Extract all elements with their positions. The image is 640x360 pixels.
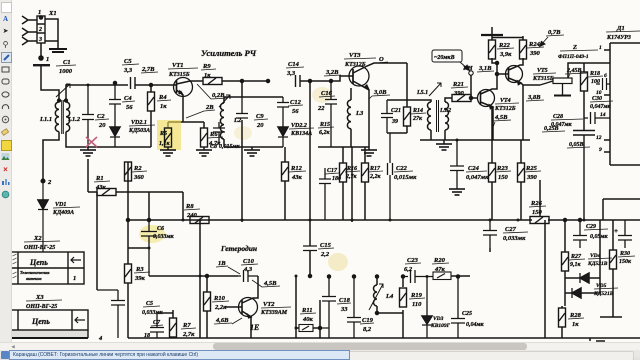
svg-text:R8: R8 (185, 203, 194, 210)
wire C14 to VT3 base (300, 76, 353, 81)
diode VD1 (38, 181, 80, 252)
node tank2 top (241, 80, 244, 83)
wire C1 to L1 (41, 66, 59, 102)
svg-text:0,015мк: 0,015мк (394, 174, 417, 181)
wire emitter rail (420, 139, 530, 141)
diode VD5 (565, 283, 618, 298)
label 0,2V (197, 84, 228, 99)
svg-text:8,2: 8,2 (363, 326, 372, 333)
svg-text:+: + (614, 227, 618, 235)
resistor R27 (562, 219, 586, 279)
wire X1 to ground (45, 19, 58, 48)
node 2 (41, 179, 52, 186)
tuning arrow tank2 (219, 95, 230, 107)
svg-text:~20мкВ: ~20мкВ (434, 55, 455, 61)
capacitor C1 (33, 59, 76, 75)
inductor L2 (220, 103, 242, 139)
wire right bottom (490, 199, 640, 338)
svg-text:VT2: VT2 (263, 301, 275, 308)
svg-text:150: 150 (532, 209, 543, 216)
resistor R4 (148, 85, 172, 147)
label O (377, 56, 388, 63)
svg-text:43к: 43к (291, 174, 303, 181)
wire down from C14 node (309, 81, 311, 276)
svg-text:VD5: VD5 (596, 283, 607, 289)
capacitor C28 (551, 114, 595, 220)
resistor R28 (559, 306, 585, 338)
resistor R9 (201, 63, 268, 85)
main bus (128, 219, 640, 221)
resistor R2 (125, 162, 148, 220)
bottom ground rail (128, 337, 640, 339)
wire L5 block (387, 63, 452, 140)
varicap VD2.1 (110, 120, 155, 147)
svg-text:R3: R3 (135, 266, 144, 273)
svg-text:ОНП-ВГ-25: ОНП-ВГ-25 (26, 304, 57, 310)
resistor R22 (489, 36, 515, 65)
svg-text:27к: 27к (412, 116, 423, 122)
svg-text:1: 1 (599, 45, 602, 51)
svg-text:L1.2: L1.2 (67, 116, 81, 123)
capacitor C8 (210, 122, 241, 150)
resistor R16 (340, 147, 361, 220)
svg-text:390: 390 (526, 174, 538, 181)
svg-text:К174УР3: К174УР3 (606, 35, 631, 41)
wire stub above R26 (539, 180, 541, 217)
svg-text:С27: С27 (505, 226, 517, 233)
transistor VT4 (478, 63, 520, 140)
label 0,7V (540, 29, 564, 46)
svg-text:47к: 47к (434, 266, 446, 273)
svg-text:360: 360 (133, 174, 145, 181)
svg-text:Цепь: Цепь (29, 258, 48, 267)
svg-text:С5: С5 (124, 58, 132, 65)
svg-text:VT3: VT3 (349, 52, 361, 59)
svg-text:1,1к: 1,1к (159, 141, 171, 147)
svg-text:240: 240 (186, 212, 198, 219)
label 3,8V (526, 94, 544, 101)
resistor R15 (318, 122, 369, 222)
yellow smudge C6 (139, 225, 165, 243)
label 2,7V (141, 66, 158, 73)
svg-text:VD3: VD3 (433, 316, 444, 322)
capacitor C2 (82, 85, 109, 147)
capacitor C19 (347, 275, 374, 338)
ground R5 (160, 150, 176, 156)
varicap VD2.2 (278, 123, 314, 147)
svg-text:1к: 1к (204, 72, 211, 79)
resistor R25 (518, 140, 542, 220)
ground tank2 (244, 147, 260, 156)
callout ~20mkV (432, 50, 469, 70)
svg-text:КД409А: КД409А (52, 210, 74, 216)
label 4,6V (214, 317, 242, 324)
svg-text:1: 1 (38, 9, 41, 16)
svg-text:Усилитель РЧ: Усилитель РЧ (201, 48, 257, 58)
svg-text:КВ134А: КВ134А (290, 131, 312, 137)
svg-text:9,1к: 9,1к (570, 262, 582, 268)
svg-text:20: 20 (256, 122, 264, 129)
svg-text:9: 9 (599, 147, 602, 153)
svg-text:С28: С28 (553, 114, 563, 120)
svg-text:4,3: 4,3 (243, 266, 253, 273)
transistor VT2 (225, 276, 291, 338)
wire L4 bottom rail (377, 310, 403, 338)
transformer L1.1 (39, 99, 60, 132)
tuning arrow L5 (429, 83, 441, 96)
capacitor C10 (238, 258, 258, 282)
resistor R20 (432, 257, 470, 280)
svg-text:Цепь: Цепь (31, 317, 50, 326)
svg-text:С22: С22 (396, 165, 408, 172)
capacitor C21 (381, 100, 401, 133)
transformer L5.1 (416, 90, 431, 130)
power rail bar (481, 34, 503, 36)
label 0,25V (542, 126, 565, 132)
svg-text:КТ312Б: КТ312Б (344, 62, 366, 68)
capacitor pin6 (596, 73, 610, 90)
svg-text:X1: X1 (48, 10, 57, 17)
svg-text:2: 2 (38, 27, 42, 33)
yellow smudge R5 (157, 120, 181, 150)
svg-text:L3: L3 (355, 110, 364, 117)
svg-text:С6: С6 (157, 226, 164, 232)
node 1 (39, 56, 49, 63)
capacitor C23 (404, 257, 433, 283)
resistor R30 (610, 220, 636, 317)
svg-text:3,3: 3,3 (123, 67, 133, 74)
ground tank1 (80, 147, 96, 156)
svg-text:УН: УН (463, 65, 474, 72)
label 4,5V L5 (493, 114, 511, 127)
svg-text:2,7к: 2,7к (345, 174, 358, 180)
wire C5 to VT1 base (135, 84, 176, 86)
svg-text:X2: X2 (33, 235, 42, 242)
resistor R18 (581, 71, 604, 130)
capacitor C6 (141, 219, 175, 277)
transistor VT3 (344, 52, 407, 147)
capacitor C18 (320, 275, 351, 338)
ground C24 (449, 189, 465, 195)
svg-text:20: 20 (98, 122, 106, 129)
red X mark (86, 137, 97, 147)
svg-text:КВ109Г: КВ109Г (430, 323, 451, 329)
wire bottom edge marks (590, 338, 605, 341)
svg-text:ФП1П-049-1: ФП1П-049-1 (558, 54, 589, 60)
node C14 right (309, 80, 312, 83)
capacitor C5b (97, 290, 164, 338)
label X3 (26, 294, 62, 310)
ground rail VT4 (436, 140, 452, 150)
connector X3 table (11, 310, 88, 338)
svg-text:С21: С21 (391, 108, 401, 114)
svg-text:150к: 150к (619, 259, 632, 265)
label 3,2V (324, 69, 341, 76)
node UN (463, 65, 474, 100)
svg-text:0,04мк: 0,04мк (466, 322, 485, 328)
svg-text:О: О (379, 56, 384, 63)
svg-text:VD4: VD4 (590, 253, 601, 259)
tuning arrow (56, 84, 70, 97)
svg-text:Гетеродин: Гетеродин (220, 244, 257, 253)
wire VT1 emitter to R5 R6 (168, 122, 204, 128)
resistor R24 (492, 36, 544, 59)
label 0,05V (567, 142, 590, 148)
transistor VT5 (496, 58, 557, 85)
svg-text:R2: R2 (133, 165, 142, 172)
wire L1.2 bottom to ground rail (66, 132, 151, 147)
svg-text:VT1: VT1 (172, 62, 184, 69)
capacitor C15 (303, 242, 334, 258)
svg-text:3,3: 3,3 (286, 70, 296, 77)
svg-text:2,7к: 2,7к (182, 331, 195, 338)
svg-text:110: 110 (412, 301, 422, 308)
wire tank2 (224, 81, 283, 222)
svg-text:10: 10 (596, 90, 602, 96)
ground L3 rail (361, 147, 377, 156)
svg-text:С25: С25 (462, 311, 472, 317)
ground R6 (196, 150, 212, 156)
wire verticals mid (149, 85, 523, 220)
svg-text:40к: 40к (302, 316, 314, 323)
resistor R10 (204, 275, 230, 339)
svg-text:С30: С30 (592, 96, 602, 102)
resistor R23 (489, 107, 512, 220)
svg-text:С8: С8 (210, 144, 217, 150)
ground (49, 49, 67, 52)
svg-text:4: 4 (98, 335, 103, 342)
svg-text:390: 390 (453, 90, 465, 97)
node R4 top (150, 84, 153, 87)
svg-text:R4: R4 (158, 94, 167, 101)
svg-text:1: 1 (73, 275, 76, 282)
svg-text:56: 56 (292, 108, 299, 115)
svg-text:КД521В: КД521В (587, 261, 608, 267)
svg-text:2: 2 (47, 179, 52, 186)
resistor R12 (282, 147, 307, 220)
transistor VT1 (168, 62, 203, 122)
varicap VD3 (422, 275, 451, 338)
svg-text:КД521В: КД521В (593, 291, 614, 297)
label 3,1V (477, 65, 494, 72)
capacitor C14 (267, 61, 305, 87)
core L5 (437, 100, 439, 132)
svg-text:6,2: 6,2 (404, 266, 413, 273)
svg-text:L4: L4 (385, 293, 394, 300)
svg-text:0,047мк: 0,047мк (590, 104, 612, 110)
capacitor C16 (317, 80, 337, 148)
svg-text:1000: 1000 (59, 68, 73, 75)
svg-text:КД503А: КД503А (128, 128, 150, 134)
svg-text:R1: R1 (95, 175, 104, 182)
svg-text:150: 150 (498, 174, 509, 181)
resistor R11 (296, 300, 322, 338)
svg-text:L5.2: L5.2 (439, 108, 451, 114)
capacitor C5 (122, 58, 139, 89)
svg-text:С9: С9 (256, 113, 264, 120)
svg-text:56: 56 (126, 104, 133, 111)
svg-text:VD1: VD1 (55, 202, 66, 208)
label 3,0V (369, 89, 390, 99)
svg-text:С2: С2 (97, 113, 105, 120)
svg-text:39: 39 (391, 119, 398, 125)
transformer L5.2 (439, 102, 451, 130)
resistor R14 (404, 100, 427, 133)
resistor R17 (362, 147, 384, 220)
label X2 (24, 235, 60, 251)
resistor R6 (201, 128, 224, 150)
resistor R7 (157, 310, 196, 338)
capacitor C22 (388, 133, 418, 220)
svg-text:КТ339АМ: КТ339АМ (260, 310, 288, 316)
svg-text:Телескопическая: Телескопическая (20, 270, 49, 275)
label 2V (186, 104, 215, 118)
capacitor C29 (573, 219, 609, 249)
svg-text:14: 14 (600, 112, 606, 118)
inductor L4 (369, 275, 394, 315)
svg-text:1к: 1к (572, 321, 579, 328)
wire X1 pin3 down (40, 43, 42, 56)
svg-text:ОНП-ВГ-25: ОНП-ВГ-25 (24, 245, 55, 251)
svg-text:12: 12 (596, 135, 602, 141)
wire heterodyne (149, 220, 296, 338)
diode VD4 (565, 253, 612, 283)
svg-text:С5: С5 (146, 301, 153, 307)
svg-text:22: 22 (317, 105, 325, 112)
svg-text:1Е: 1Е (250, 323, 259, 332)
IC pin stubs (596, 45, 610, 153)
transformer L1.2 (65, 99, 81, 132)
resistor R1 (88, 159, 183, 196)
svg-text:6: 6 (604, 73, 607, 79)
capacitor C9 (236, 97, 268, 129)
resistor R21 (451, 81, 477, 102)
junction dots bus (127, 219, 586, 222)
resistor R3 (125, 219, 151, 339)
svg-text:1к: 1к (160, 103, 167, 110)
wire L1.2 top to C2/C5 bus (66, 85, 128, 102)
capacitor C27 (483, 220, 528, 248)
svg-text:1: 1 (46, 56, 49, 63)
wire diodes (565, 220, 600, 306)
resistor R26 (529, 200, 549, 224)
svg-text:3: 3 (38, 37, 42, 43)
capacitor C31 polar (614, 220, 632, 248)
capacitor C4 (109, 82, 135, 128)
svg-text:L1.1: L1.1 (39, 116, 52, 123)
connector X1 (22, 9, 57, 45)
svg-text:3,9к: 3,9к (499, 51, 512, 58)
IC DA1 box (606, 25, 640, 165)
filter Z (540, 44, 598, 96)
resistor R5 (159, 128, 172, 150)
wire R1 left column (96, 192, 98, 290)
label 2,45V (565, 68, 588, 78)
svg-text:X3: X3 (35, 294, 44, 301)
svg-text:6,2к: 6,2к (319, 130, 331, 136)
capacitor C7 (144, 313, 164, 339)
svg-text:R7: R7 (182, 322, 191, 329)
capacitor C30 (584, 96, 613, 124)
svg-text:0,047мк: 0,047мк (466, 174, 489, 181)
inductor L3 (347, 88, 364, 147)
label 4,5V htd (252, 280, 280, 287)
svg-text:КТ312Б: КТ312Б (494, 106, 516, 112)
core L1 (62, 100, 64, 134)
svg-text:Д1: Д1 (616, 25, 625, 32)
svg-text:Z: Z (572, 44, 577, 51)
capacitor C12 (277, 97, 303, 127)
svg-text:антенна: антенна (26, 276, 42, 281)
svg-text:0,033мк: 0,033мк (503, 235, 526, 242)
svg-text:L5.1: L5.1 (416, 90, 428, 96)
svg-text:С24: С24 (468, 165, 480, 172)
capacitor C17 (319, 168, 341, 220)
resistor R8 (184, 203, 209, 224)
resistor R19 (400, 275, 426, 308)
svg-text:R5: R5 (159, 131, 167, 137)
svg-text:2,2: 2,2 (320, 251, 330, 258)
svg-text:С29: С29 (586, 224, 596, 230)
svg-text:КТ315Б: КТ315Б (168, 72, 190, 78)
svg-text:390: 390 (529, 50, 541, 57)
label 1V (216, 260, 240, 274)
svg-text:33: 33 (340, 306, 348, 313)
wire filter top to IC (568, 63, 610, 78)
wire R2 branch to heterodyne (128, 247, 149, 249)
junction dots heterodyne (199, 219, 298, 330)
capacitor C24 (450, 139, 489, 190)
svg-text:39к: 39к (134, 275, 146, 282)
svg-text:2,2к: 2,2к (369, 174, 382, 180)
svg-text:0,033мк: 0,033мк (153, 234, 175, 240)
wire L1.1 bottom down-left (43, 132, 59, 179)
svg-text:R9: R9 (202, 63, 211, 70)
connector X2 table (11, 252, 84, 284)
capacitor C25 (451, 275, 485, 338)
svg-text:0,047мк: 0,047мк (551, 122, 573, 128)
